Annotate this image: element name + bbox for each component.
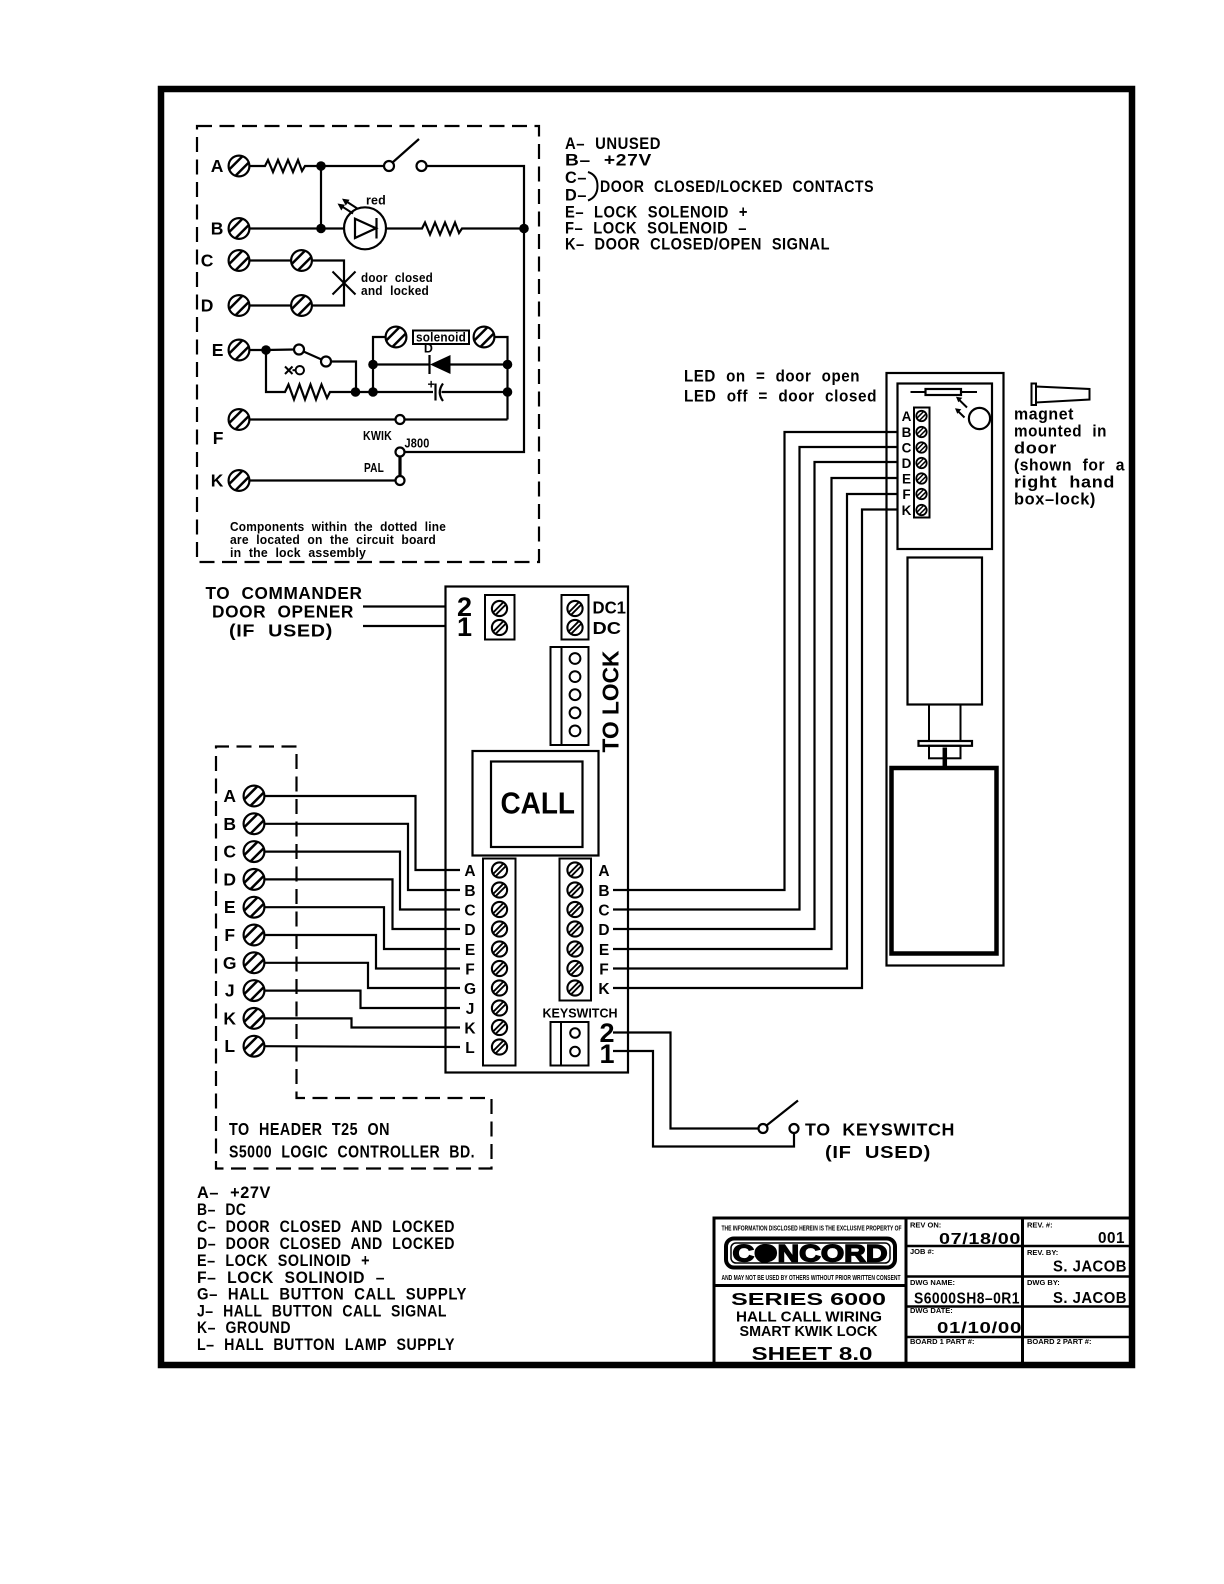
svg-text:F: F — [902, 487, 910, 502]
board left strip labels — [464, 863, 476, 1057]
wire J — [265, 991, 461, 1008]
terminal D — [201, 295, 250, 316]
svg-text:1: 1 — [599, 1039, 614, 1069]
svg-text:L– HALL BUTTON LAMP SUPPLY: L– HALL BUTTON LAMP SUPPLY — [197, 1336, 455, 1354]
connector point — [396, 415, 405, 424]
T25 terminal J — [225, 980, 265, 1001]
svg-text:E: E — [902, 472, 911, 487]
svg-text:F: F — [465, 962, 474, 979]
terminal A — [211, 156, 250, 177]
wire — [250, 349, 267, 351]
node E1 junction — [261, 345, 271, 355]
svg-text:A: A — [464, 863, 475, 880]
svg-text:TO KEYSWITCH: TO KEYSWITCH — [805, 1120, 955, 1140]
svg-text:S5000 LOGIC CONTROLLER BD.: S5000 LOGIC CONTROLLER BD. — [229, 1142, 475, 1162]
svg-text:in the lock assembly: in the lock assembly — [230, 546, 366, 560]
svg-text:(shown for a: (shown for a — [1014, 457, 1125, 475]
svg-text:K– GROUND: K– GROUND — [197, 1319, 291, 1337]
svg-text:A: A — [211, 156, 224, 176]
svg-text:TO HEADER T25 ON: TO HEADER T25 ON — [229, 1119, 390, 1139]
svg-text:SHEET 8.0: SHEET 8.0 — [752, 1343, 873, 1364]
node C1a junction — [503, 387, 513, 397]
keyswitch SW3 — [759, 1101, 799, 1134]
wire — [312, 261, 344, 306]
to commander note — [206, 583, 363, 641]
board left terminal strip — [483, 859, 516, 1066]
keyswitch label — [543, 1007, 618, 1021]
svg-text:SERIES 6000: SERIES 6000 — [731, 1289, 886, 1309]
board right terminal strip — [560, 859, 592, 1001]
svg-text:E: E — [465, 942, 475, 959]
wire lock E — [613, 478, 898, 949]
svg-text:F: F — [224, 925, 235, 945]
title fields — [910, 1221, 1127, 1347]
T25 terminal E — [224, 897, 265, 918]
svg-text:magnet: magnet — [1014, 406, 1074, 424]
wire D — [265, 879, 461, 929]
magnet note — [1014, 406, 1125, 509]
note components within dotted line — [230, 520, 446, 560]
svg-text:(IF USED): (IF USED) — [825, 1142, 931, 1162]
svg-text:DOOR OPENER: DOOR OPENER — [212, 602, 354, 622]
wire — [363, 625, 446, 627]
T25 terminal B — [223, 813, 264, 834]
svg-text:B: B — [598, 883, 609, 900]
svg-text:red: red — [366, 194, 386, 208]
svg-text:B– +27V: B– +27V — [565, 152, 652, 170]
svg-text:K– DOOR CLOSED/OPEN SIGNAL: K– DOOR CLOSED/OPEN SIGNAL — [565, 236, 830, 254]
svg-text:BOARD 2 PART #:: BOARD 2 PART #: — [1027, 1337, 1091, 1346]
svg-text:K: K — [902, 503, 912, 518]
svg-text:C: C — [223, 842, 236, 862]
svg-text:E: E — [599, 942, 609, 959]
svg-text:D: D — [424, 342, 433, 356]
svg-text:REV ON:: REV ON: — [910, 1221, 941, 1230]
svg-text:S. JACOB: S. JACOB — [1053, 1290, 1127, 1307]
wire lock K — [613, 510, 898, 989]
jumper J800 — [363, 429, 430, 485]
to lock connector — [551, 647, 624, 753]
svg-text:TO LOCK: TO LOCK — [598, 650, 624, 752]
svg-text:right hand: right hand — [1014, 474, 1115, 492]
svg-text:J: J — [225, 981, 235, 1001]
wire — [321, 165, 384, 167]
node A1 junction — [316, 161, 326, 171]
svg-text:G: G — [464, 981, 476, 998]
magnet icon — [1032, 384, 1090, 406]
wire — [250, 259, 292, 261]
wire — [363, 605, 446, 607]
LED D1 red — [338, 194, 387, 250]
svg-text:A: A — [902, 409, 912, 424]
svg-text:DC: DC — [593, 618, 622, 638]
lock led circle — [969, 408, 990, 429]
wire — [250, 479, 396, 481]
legend top right — [565, 135, 874, 254]
wire A — [265, 796, 461, 870]
T25 terminal K — [223, 1008, 264, 1029]
wire B — [265, 824, 461, 890]
svg-text:001: 001 — [1098, 1230, 1125, 1247]
svg-text:and locked: and locked — [361, 284, 429, 298]
svg-text:BOARD 1 PART #:: BOARD 1 PART #: — [910, 1337, 974, 1346]
T25 terminal A — [223, 786, 264, 807]
svg-text:A– UNUSED: A– UNUSED — [565, 135, 661, 153]
svg-text:D: D — [598, 922, 609, 939]
svg-text:S. JACOB: S. JACOB — [1053, 1259, 1127, 1276]
svg-text:box–lock): box–lock) — [1014, 491, 1096, 509]
svg-text:E: E — [224, 897, 236, 917]
T25 terminal C — [223, 841, 264, 862]
svg-text:B: B — [902, 425, 912, 440]
svg-text:SMART KWIK LOCK: SMART KWIK LOCK — [740, 1323, 878, 1340]
svg-text:B: B — [223, 814, 236, 834]
svg-text:01/10/00: 01/10/00 — [937, 1320, 1022, 1337]
svg-text:C–: C– — [565, 169, 587, 187]
series 6000 title — [731, 1289, 886, 1364]
svg-text:L: L — [465, 1040, 474, 1057]
contact X door closed and locked — [333, 271, 434, 298]
svg-text:G: G — [223, 953, 237, 973]
svg-text:D: D — [223, 869, 236, 889]
svg-text:C: C — [201, 251, 214, 271]
node E2 junction — [351, 387, 361, 397]
to header note — [229, 1119, 475, 1162]
terminal B — [211, 218, 250, 239]
plunger stem — [943, 748, 948, 769]
commander connector pins 2 1 — [457, 592, 515, 642]
arrow 2 — [955, 408, 965, 417]
LED note — [684, 368, 877, 406]
svg-text:JOB #:: JOB #: — [910, 1247, 934, 1256]
manual operator symbol — [285, 366, 304, 374]
svg-text:D– DOOR CLOSED AND LOCKED: D– DOOR CLOSED AND LOCKED — [197, 1235, 455, 1253]
svg-text:B: B — [211, 219, 224, 239]
wire lock C — [613, 447, 898, 910]
svg-text:door closed: door closed — [361, 271, 433, 285]
terminal F — [213, 409, 250, 448]
consent note — [722, 1275, 902, 1282]
resistor R3 — [266, 350, 356, 400]
svg-text:E– LOCK SOLINOID +: E– LOCK SOLINOID + — [197, 1252, 370, 1270]
svg-text:G– HALL BUTTON CALL SUPPLY: G– HALL BUTTON CALL SUPPLY — [197, 1286, 467, 1304]
svg-text:(IF USED): (IF USED) — [229, 621, 333, 641]
wire — [373, 337, 386, 392]
lock assembly outline — [887, 373, 1004, 966]
T25 header dashed enclosure — [216, 747, 492, 1169]
arrow 1 — [956, 397, 967, 408]
terminal K — [211, 470, 250, 491]
svg-text:LED off = door closed: LED off = door closed — [684, 388, 877, 406]
wire — [250, 304, 292, 306]
wire lock F — [613, 494, 898, 969]
wire — [405, 166, 525, 452]
CALL button — [473, 751, 599, 856]
node B2 junction — [519, 224, 529, 234]
svg-text:KWIK: KWIK — [363, 429, 392, 443]
reed switch — [911, 389, 978, 395]
svg-text:F: F — [213, 428, 224, 448]
wire K — [265, 1018, 461, 1027]
lock pcb outline — [898, 384, 993, 550]
svg-text:D: D — [464, 922, 475, 939]
svg-text:TO COMMANDER: TO COMMANDER — [206, 583, 363, 603]
lock bolt body — [892, 768, 997, 954]
svg-text:K: K — [464, 1021, 476, 1038]
svg-text:B– DC: B– DC — [197, 1201, 247, 1219]
wire lock B — [613, 432, 898, 890]
solenoid L1 — [386, 327, 495, 356]
svg-text:Components within the dotted l: Components within the dotted line — [230, 520, 446, 534]
svg-text:S6000SH8–0R1: S6000SH8–0R1 — [914, 1291, 1020, 1308]
svg-text:B: B — [464, 883, 475, 900]
svg-text:+: + — [428, 378, 436, 392]
svg-text:LED on = door open: LED on = door open — [684, 368, 860, 386]
svg-text:J– HALL BUTTON CALL SIGNAL: J– HALL BUTTON CALL SIGNAL — [197, 1303, 447, 1321]
wire — [495, 337, 508, 420]
wire — [405, 418, 508, 420]
svg-text:PAL: PAL — [364, 461, 384, 475]
switch SW1 door contact — [384, 139, 427, 171]
svg-text:07/18/00: 07/18/00 — [939, 1231, 1021, 1248]
svg-text:REV. #:: REV. #: — [1027, 1221, 1053, 1230]
svg-text:DWG NAME:: DWG NAME: — [910, 1278, 955, 1287]
wire keyswitch 1 — [613, 1051, 794, 1147]
svg-text:K: K — [211, 471, 224, 491]
lock strip labels — [902, 409, 912, 518]
wire — [250, 418, 396, 420]
resistor R1 — [250, 160, 322, 172]
svg-text:DOOR CLOSED/LOCKED CONTACTS: DOOR CLOSED/LOCKED CONTACTS — [600, 178, 874, 196]
node D2a junction — [503, 360, 513, 370]
solenoid plunger — [929, 705, 961, 742]
svg-text:C: C — [464, 903, 475, 920]
wire keyswitch 2 — [613, 1033, 759, 1129]
svg-text:DWG BY:: DWG BY: — [1027, 1278, 1060, 1287]
svg-text:J800: J800 — [405, 437, 430, 451]
node E3 junction — [368, 387, 378, 397]
terminal C2 — [291, 250, 312, 271]
svg-text:AND MAY NOT BE USED BY OTHERS: AND MAY NOT BE USED BY OTHERS WITHOUT PR… — [722, 1275, 902, 1282]
svg-text:F– LOCK SOLINOID –: F– LOCK SOLINOID – — [197, 1269, 385, 1287]
T25 terminal F — [224, 925, 264, 946]
wire F — [265, 935, 461, 969]
svg-text:D: D — [201, 296, 214, 316]
capacitor C1 — [373, 378, 508, 402]
svg-text:L: L — [224, 1036, 235, 1056]
svg-text:F: F — [599, 962, 608, 979]
svg-text:door: door — [1014, 440, 1057, 458]
svg-text:K: K — [223, 1008, 236, 1028]
wire G — [265, 963, 461, 988]
terminal C — [201, 250, 250, 271]
concord logo — [726, 1239, 895, 1268]
hall call board outline — [446, 587, 629, 1073]
border frame — [161, 89, 1132, 1365]
svg-text:C: C — [598, 903, 609, 920]
T25 terminal L — [224, 1036, 264, 1057]
node B1 junction — [316, 224, 326, 234]
node E4 junction — [368, 360, 378, 370]
solenoid body — [908, 558, 983, 705]
svg-text:are located on the circuit boa: are located on the circuit board — [230, 533, 436, 547]
svg-text:REV. BY:: REV. BY: — [1027, 1248, 1058, 1257]
svg-text:A: A — [223, 786, 236, 806]
title block frame — [714, 1218, 1131, 1365]
board right strip labels — [598, 863, 610, 998]
terminal D2 — [291, 295, 312, 316]
wire E — [265, 907, 461, 949]
lock terminal strip — [914, 408, 930, 518]
svg-text:C: C — [902, 441, 912, 456]
wire — [331, 362, 356, 393]
svg-text:E: E — [212, 340, 224, 360]
wire lock D — [613, 462, 898, 929]
wire — [250, 227, 345, 229]
svg-text:C– DOOR CLOSED AND LOCKED: C– DOOR CLOSED AND LOCKED — [197, 1218, 455, 1236]
T25 terminal D — [223, 869, 264, 890]
resistor R2 — [386, 223, 524, 235]
T25 terminal G — [223, 952, 265, 973]
terminal E — [212, 340, 250, 361]
svg-text:mounted in: mounted in — [1014, 423, 1107, 441]
svg-text:J: J — [466, 1001, 475, 1018]
plunger lower — [929, 746, 961, 759]
wire — [320, 166, 322, 229]
plunger flange — [919, 741, 973, 746]
wire C — [265, 852, 461, 910]
to keyswitch note — [805, 1120, 955, 1163]
switch SW2 — [266, 345, 331, 367]
svg-text:THE INFORMATION DISCLOSED HERE: THE INFORMATION DISCLOSED HEREIN IS THE … — [722, 1226, 903, 1233]
wire L — [265, 1045, 461, 1048]
diode D2 — [373, 355, 508, 374]
svg-text:DWG DATE:: DWG DATE: — [910, 1306, 953, 1315]
wire — [356, 391, 374, 393]
svg-text:1: 1 — [457, 612, 472, 642]
legend bottom left — [197, 1184, 467, 1354]
property note — [722, 1226, 903, 1233]
svg-text:K: K — [598, 981, 610, 998]
DC connector — [562, 595, 627, 640]
svg-text:A: A — [598, 863, 609, 880]
svg-text:A– +27V: A– +27V — [197, 1184, 271, 1202]
svg-text:D–: D– — [565, 187, 587, 205]
svg-text:D: D — [902, 456, 912, 471]
svg-text:CALL: CALL — [501, 786, 576, 821]
keyswitch connector — [551, 1018, 615, 1069]
lock circuit board dashed enclosure — [197, 126, 539, 562]
svg-text:DC1: DC1 — [593, 598, 627, 618]
